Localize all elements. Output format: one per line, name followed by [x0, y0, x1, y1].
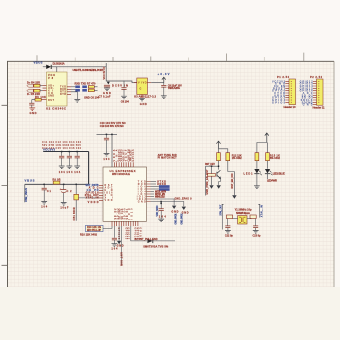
wire pin to diode D2 — [131, 226, 147, 241]
P2 pin numbers column — [318, 81, 320, 104]
wire GPIO5 — [151, 193, 155, 195]
svg-text:D2 RST_PULL ESD: D2 RST_PULL ESD — [135, 238, 158, 241]
connector P2 body — [317, 79, 324, 105]
diode D1 — [46, 65, 51, 69]
svg-text:104: 104 — [103, 158, 110, 161]
svg-text:USB_VBUS: USB_VBUS — [24, 188, 28, 202]
svg-text:GND: GND — [140, 102, 147, 106]
wire U3 output — [151, 82, 164, 84]
resistor R8 — [88, 89, 94, 92]
svg-text:C19 104 50V X7R NC: C19 104 50V X7R NC — [100, 124, 124, 128]
svg-text:RST: RST — [48, 99, 54, 102]
junction VDD pin — [111, 134, 113, 136]
capacitor C8 input — [121, 81, 126, 96]
wire 5V rail to regulator — [57, 67, 137, 83]
series resistor left — [226, 215, 232, 219]
svg-text:C7 0.1uF: C7 0.1uF — [99, 95, 111, 99]
svg-text:VBUS: VBUS — [34, 60, 43, 64]
junction dot2 — [160, 203, 162, 205]
svg-text:GND: GND — [117, 245, 124, 248]
net label box TXD — [75, 86, 80, 89]
U1 bottom rotated pin labels inside — [114, 208, 134, 220]
svg-text:RST_KEY: RST_KEY — [205, 163, 215, 166]
wire R7 right — [94, 86, 97, 88]
svg-text:R10 12K 0402: R10 12K 0402 — [80, 232, 98, 236]
svg-text:1% 0402: 1% 0402 — [232, 157, 243, 160]
power arrow at regulator input — [107, 82, 110, 85]
svg-text:VDDD: VDDD — [88, 201, 99, 204]
capacitor C13 — [75, 152, 80, 166]
U1 bottom rotated net labels below — [117, 227, 141, 240]
resistor R14 — [255, 153, 259, 161]
ground C22 — [225, 231, 231, 234]
svg-text:G: G — [140, 88, 142, 91]
wire FB1 to U1 XTAL pin — [79, 197, 100, 199]
U3 pin names — [138, 81, 147, 90]
wire pin to gnd arrow — [118, 226, 120, 241]
U3 output pin — [147, 82, 151, 84]
wire R14 to LED1 — [256, 161, 258, 169]
wire to C23 — [254, 219, 256, 226]
svg-text:LED-PWR: LED-PWR — [267, 179, 277, 183]
ground arrow IO13 column — [172, 206, 176, 209]
wire UTXD — [151, 181, 157, 183]
P1 net labels — [272, 80, 286, 104]
wire XTAL_OUT vertical — [222, 204, 224, 229]
svg-text:P1 2.54: P1 2.54 — [277, 75, 290, 79]
svg-text:C2: C2 — [67, 190, 73, 193]
resistor R7 — [88, 86, 94, 89]
ground C10 — [104, 153, 110, 156]
svg-text:U3 AMS1117-3.3: U3 AMS1117-3.3 — [134, 95, 156, 99]
svg-text:VBUS: VBUS — [25, 178, 35, 182]
svg-text:GPIO15: GPIO15 — [117, 227, 120, 240]
svg-text:VDD: VDD — [105, 199, 113, 202]
svg-text:GPIO12: GPIO12 — [127, 227, 130, 240]
junction R11 — [218, 166, 220, 168]
net label box GPIO2 — [159, 188, 170, 191]
wire VDD rail to U1 — [97, 133, 118, 135]
U2 pin name text right column — [60, 85, 66, 96]
svg-text:XTAL_IN: XTAL_IN — [86, 197, 99, 200]
svg-text:XTAL_IN: XTAL_IN — [260, 205, 263, 217]
op IC U2 CH340 body — [47, 72, 68, 106]
resistor R6 — [35, 98, 41, 101]
capacitor C23 — [253, 226, 258, 228]
ground arrow below pin — [117, 241, 121, 244]
svg-text:GND: GND — [171, 211, 178, 214]
wire cap branch down — [211, 166, 213, 185]
svg-text:104: 104 — [66, 170, 73, 174]
svg-text:DTR: DTR — [60, 93, 66, 96]
capacitor C18 electrolytic — [60, 184, 67, 202]
wire GPIO2 — [151, 188, 159, 190]
svg-text:IO10: IO10 — [131, 208, 134, 220]
svg-text:GND_EPAD 9: GND_EPAD 9 — [175, 198, 193, 201]
U1 left pin stubs — [99, 185, 103, 200]
wire to C22 — [226, 219, 228, 226]
diode D2 TVS — [147, 239, 152, 243]
wire pin to C21 — [113, 226, 115, 238]
LED1 — [254, 169, 262, 175]
wire R4 to U2 — [40, 85, 43, 87]
antenna wire down — [121, 226, 123, 266]
wire URXD — [151, 183, 157, 185]
ground C21 — [112, 244, 118, 247]
svg-text:LED1: LED1 — [244, 173, 254, 176]
wire 3V3 bus down — [88, 152, 90, 185]
U2 pin name text left column — [48, 84, 55, 102]
svg-text:FB1 600R: FB1 600R — [73, 207, 76, 220]
ground C11 — [59, 166, 65, 169]
ground C12 — [67, 166, 73, 169]
svg-text:GND: GND — [48, 94, 54, 97]
wire C21 down — [113, 240, 115, 243]
svg-text:10uF: 10uF — [60, 207, 68, 210]
regulator U3 AMS1117 body — [137, 78, 148, 95]
ferrite bead FB1 — [74, 194, 79, 200]
U1 right pin stubs — [147, 182, 151, 202]
capacitor C22 — [225, 226, 230, 228]
svg-text:+: + — [60, 187, 62, 191]
wire VBUS stub down — [24, 184, 26, 202]
wire split to R11 R12 — [219, 149, 228, 153]
port USB_D- — [27, 89, 34, 92]
svg-text:TANT. A 20%: TANT. A 20% — [168, 86, 181, 90]
wire GND pin to column — [151, 202, 184, 207]
ground below U3 — [139, 98, 145, 101]
ground RTS — [74, 100, 80, 103]
svg-text:C14 104 C15 104 C16 104: C14 104 C15 104 C16 104 — [42, 146, 82, 150]
svg-text:104: 104 — [74, 170, 81, 174]
MCU U1 ESP8266 body — [103, 167, 147, 221]
wire R12 to node — [228, 161, 235, 172]
junction C10 — [106, 134, 108, 136]
vertical 5V stub — [105, 63, 107, 67]
capacitor C9 output — [161, 83, 166, 96]
wire GPIO4 — [151, 191, 155, 193]
wire LED1 to ground — [256, 174, 258, 186]
wire node down to arrow — [233, 172, 235, 196]
wire C7 to ground — [106, 86, 108, 89]
svg-text:Header 11: Header 11 — [313, 105, 325, 109]
svg-text:R6 10K: R6 10K — [35, 95, 46, 99]
LED2 — [265, 169, 273, 175]
capacitor C20 — [159, 209, 164, 211]
wire R6 to C5 — [32, 100, 35, 103]
svg-text:MTMS_CLK: MTMS_CLK — [155, 195, 165, 198]
ground C17 — [41, 202, 47, 205]
svg-text:GND C6 104: GND C6 104 — [84, 96, 100, 100]
svg-text:GND: GND — [30, 111, 37, 115]
wire R11 down — [218, 161, 220, 170]
U1 top pin stubs — [114, 162, 133, 167]
ground C20 — [158, 219, 164, 222]
wire FB1 down — [75, 200, 77, 221]
wire left branch down — [205, 166, 207, 195]
resistor R12 — [226, 153, 230, 161]
ground C23 — [253, 231, 259, 234]
svg-text:D+ R4 22R: D+ R4 22R — [27, 81, 40, 85]
svg-text:104: 104 — [111, 248, 118, 251]
U1 right pin names inside — [137, 180, 147, 203]
U2 right pin stubs — [67, 87, 71, 95]
wire LED2 down — [267, 174, 269, 179]
resistor R4 22R — [34, 84, 40, 87]
wire D2 right — [153, 240, 175, 242]
svg-text:104: 104 — [59, 170, 66, 174]
strap resistor box R10 — [86, 225, 104, 231]
svg-text:GND_PAD1: GND_PAD1 — [174, 213, 177, 225]
wire R8 right — [94, 89, 97, 91]
U3 ground pin — [141, 95, 143, 99]
junction C12 — [69, 151, 71, 153]
P1 pin numbers column — [290, 81, 292, 103]
svg-text:R9 0R: R9 0R — [53, 179, 61, 182]
wire C20 to ground — [160, 211, 162, 219]
U1 left pin names inside — [105, 184, 114, 202]
U1 top pin rotated labels — [113, 149, 135, 162]
junction C18 — [63, 184, 65, 186]
svg-text:D1 SS14 2A: D1 SS14 2A — [53, 62, 65, 66]
capacitor C17 — [42, 184, 47, 201]
wire C23 to ground — [255, 228, 257, 231]
svg-text:GND_PAD2: GND_PAD2 — [181, 213, 184, 225]
wire 3V3 rail — [43, 151, 88, 153]
svg-text:GND: GND — [138, 200, 146, 203]
wire C5 to ground — [31, 105, 33, 108]
wire Y1 right — [247, 218, 252, 220]
P2 net labels — [300, 80, 314, 106]
connector P1 body — [289, 79, 296, 105]
svg-text:P2 2.54: P2 2.54 — [310, 75, 323, 79]
wire base rail — [206, 165, 219, 167]
net label box2 TXD — [82, 86, 87, 89]
svg-text:USB-TTL CH340 SERIAL PORT: USB-TTL CH340 SERIAL PORT — [73, 68, 104, 72]
net label box GPIO0 — [159, 185, 170, 188]
svg-text:GPIO16: GPIO16 — [132, 149, 135, 162]
wire C22 to ground — [227, 228, 229, 231]
wire R10 to U1 — [103, 226, 112, 228]
wire U2 RTS to ground — [71, 92, 77, 99]
svg-text:VO: VO — [143, 81, 147, 84]
capacitor C10 — [104, 134, 109, 153]
svg-text:104: 104 — [159, 215, 167, 218]
svg-text:C1: C1 — [47, 190, 52, 193]
svg-text:VCC 5V C7: VCC 5V C7 — [102, 66, 106, 80]
U2 left pin stubs — [41, 86, 46, 100]
svg-text:RXD TXD R7 470: RXD TXD R7 470 — [75, 82, 97, 86]
P2 pin stubs — [313, 81, 317, 104]
wire R15 to LED2 — [267, 161, 269, 169]
wire VDD down to U1 pin1 — [111, 134, 113, 167]
decoupling cap value rows — [42, 140, 82, 150]
capacitor C7 — [104, 85, 110, 87]
wire to ferrite bead — [75, 184, 77, 194]
wire U2 TXD out — [71, 86, 75, 88]
U1 bottom pin stubs — [112, 221, 138, 226]
wire Q1 emitter to ground — [219, 178, 221, 185]
junction base — [211, 166, 213, 168]
ground below C7 — [104, 88, 110, 91]
P1 pin stubs — [285, 81, 289, 102]
U3 input pin — [134, 82, 137, 84]
svg-text:C23 9p: C23 9p — [253, 235, 262, 238]
svg-text:ERC PULL-UP: ERC PULL-UP — [87, 229, 101, 232]
power arrow LED branch — [265, 133, 269, 143]
ground C18 — [61, 203, 67, 206]
junction VDD_SDIO — [160, 201, 162, 203]
svg-text:C8 104: C8 104 — [121, 99, 130, 103]
wire Y1 left — [233, 218, 238, 220]
resistor R9 series — [53, 181, 60, 184]
net label box RXD — [75, 89, 80, 92]
U1 left net labels — [85, 184, 100, 204]
svg-text:V3: V3 — [48, 77, 54, 80]
power port +3.3V arrow — [162, 77, 166, 82]
ground below C9 — [161, 96, 167, 99]
resistor R15 — [266, 153, 270, 161]
port USB_D+ — [27, 84, 34, 87]
svg-text:LED2 BLUE: LED2 BLUE — [273, 173, 285, 176]
wire U2 RXD out — [71, 88, 75, 90]
junction C17 — [43, 184, 45, 186]
wire VDD_SDIO cap — [160, 202, 162, 209]
svg-text:5% 0402: 5% 0402 — [270, 157, 281, 160]
svg-text:WIFI MODULE: WIFI MODULE — [112, 172, 130, 176]
svg-text:GND: GND — [303, 104, 313, 107]
net label box2 RXD — [82, 89, 87, 92]
svg-text:PI MATCH NET: PI MATCH NET — [158, 157, 178, 160]
capacitor C11 — [59, 152, 64, 166]
wire GPIO0 — [151, 186, 159, 188]
svg-text:XTAL_OUT: XTAL_OUT — [220, 204, 223, 216]
resistor R11 — [217, 153, 221, 161]
svg-text:104: 104 — [41, 206, 48, 209]
ground arrow node wire — [232, 195, 236, 198]
svg-text:SM6T3V3A TVS 5%: SM6T3V3A TVS 5% — [143, 244, 169, 248]
base resistor R13 — [208, 174, 216, 177]
svg-text:Header 10: Header 10 — [284, 105, 296, 109]
ground C13 — [74, 166, 80, 169]
ground LED1 — [254, 186, 260, 189]
wire D1 to U2 VCC pin — [52, 67, 57, 72]
svg-text:+3.3V: +3.3V — [158, 72, 170, 76]
Y1 inner electrodes — [239, 217, 245, 222]
capacitor C5 — [29, 103, 34, 105]
resistor R5 22R — [34, 89, 40, 92]
wire IO13 to gnd column — [151, 199, 175, 205]
transistor Q1 — [217, 170, 221, 178]
svg-text:ANT 50R: ANT 50R — [120, 252, 123, 266]
svg-text:C22 9p: C22 9p — [225, 235, 234, 238]
wire XTAL_IN vertical — [258, 204, 260, 217]
svg-text:DC5V IN: DC5V IN — [112, 84, 128, 88]
ground arrow GND column — [182, 207, 186, 210]
capacitor C12 — [67, 152, 72, 166]
crystal Y1 body — [238, 216, 247, 224]
wire 5V bottom rail — [25, 183, 89, 185]
wire R5 to U2 — [40, 90, 43, 92]
svg-text:U2 CH340C: U2 CH340C — [46, 107, 67, 111]
series resistor right — [250, 215, 256, 219]
ground arrow cap branch — [209, 185, 213, 188]
capacitor C21 — [112, 238, 117, 240]
junction C13 — [76, 151, 78, 153]
svg-text:USB_PWR_EN_RST: USB_PWR_EN_RST — [206, 169, 209, 194]
ground arrow Q1 emitter — [217, 185, 221, 188]
ground below C8 — [121, 96, 127, 99]
junction C11 — [61, 151, 63, 153]
wire VBUS to diode D1 — [43, 66, 46, 68]
wire split to R14 R15 — [257, 143, 268, 153]
ground below C5 — [29, 108, 35, 111]
svg-text:NX3225 10ppm: NX3225 10ppm — [236, 212, 251, 215]
junction ferrite — [76, 184, 78, 186]
svg-text:RST_EN_IO0: RST_EN_IO0 — [231, 173, 234, 189]
wire IO12 — [151, 196, 155, 198]
power arrow Q1 branch — [216, 141, 220, 149]
